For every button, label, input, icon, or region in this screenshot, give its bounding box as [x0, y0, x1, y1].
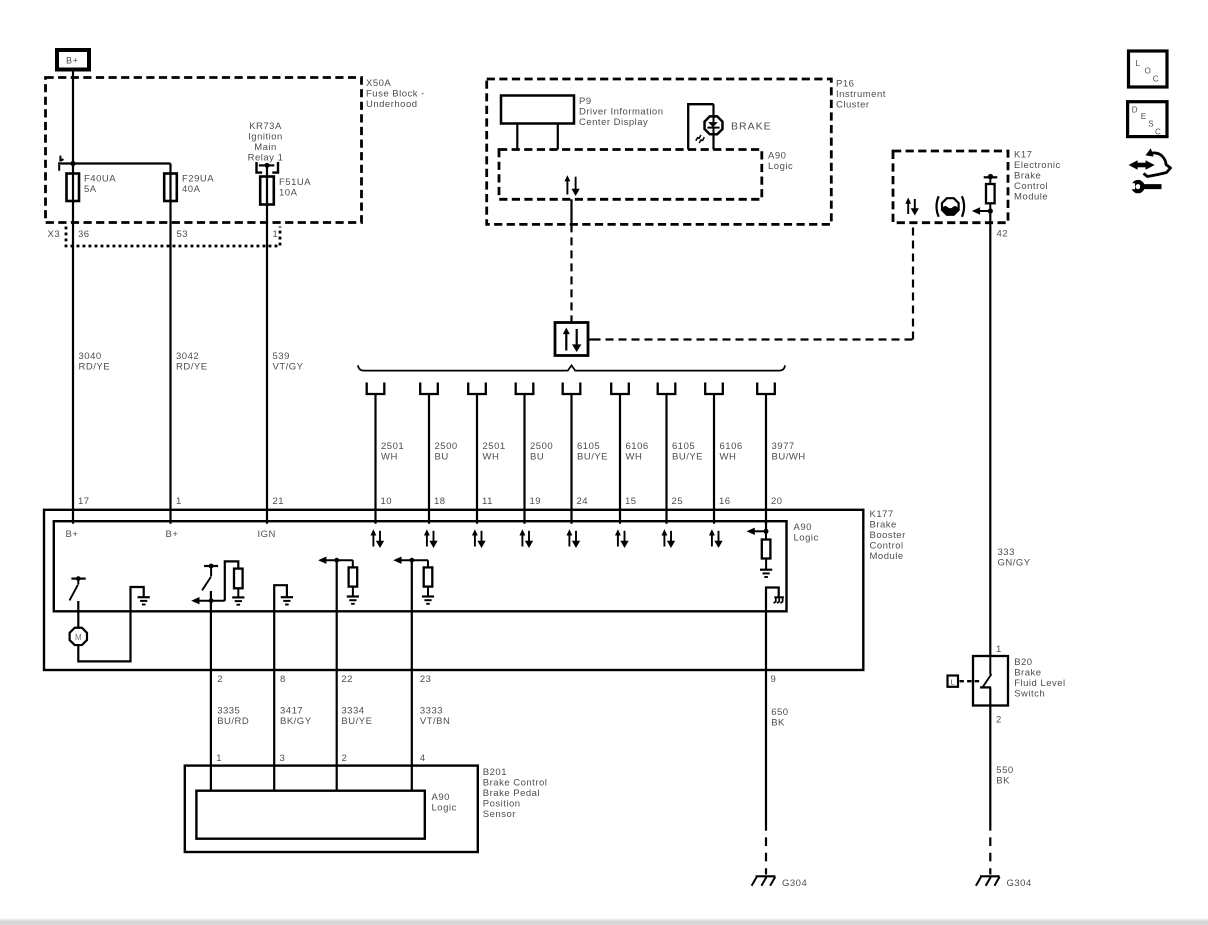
- pin 20 pull resistor: [765, 531, 767, 539]
- svg-text:B+: B+: [166, 529, 179, 540]
- svg-text:VT/BN: VT/BN: [420, 716, 450, 727]
- wire 3335 BU/RD: [210, 670, 212, 791]
- wire 550 BK dashed to ground: [989, 822, 991, 875]
- svg-text:15: 15: [625, 496, 637, 507]
- svg-text:S: S: [1148, 119, 1153, 128]
- svg-text:24: 24: [577, 496, 589, 507]
- svg-text:A90: A90: [768, 150, 786, 161]
- svg-text:2500: 2500: [435, 441, 458, 452]
- logic A90 box in B201: [196, 791, 424, 839]
- svg-text:18: 18: [434, 496, 446, 507]
- svg-text:D: D: [1132, 106, 1138, 115]
- svg-text:3: 3: [280, 753, 286, 764]
- svg-text:X50A: X50A: [366, 78, 391, 89]
- svg-text:Logic: Logic: [768, 161, 793, 172]
- ground elbow pin 8: [274, 585, 287, 670]
- brake warning indicator symbol: [942, 198, 959, 215]
- wire 650 BK dashed to ground: [765, 822, 767, 875]
- wiring diagram icon wrench: [1140, 184, 1162, 189]
- connector terminal for circuit 6105 BU/YE: [563, 383, 581, 395]
- svg-text:Relay 1: Relay 1: [248, 152, 284, 163]
- connector terminal for circuit 2500 BU: [516, 383, 534, 395]
- svg-text:25: 25: [672, 496, 684, 507]
- dashed serial data wire right to K17: [588, 338, 593, 340]
- svg-text:L: L: [1136, 59, 1141, 68]
- wire 6106 WH: [713, 394, 715, 524]
- window scrollbar: [0, 919, 1208, 921]
- serial data arrows pin 15: [617, 535, 619, 547]
- DESC hotspot box: [1128, 102, 1167, 137]
- svg-text:BRAKE: BRAKE: [731, 121, 772, 133]
- LED light rays: [696, 135, 705, 143]
- instrument cluster P16 dashed box: [487, 79, 832, 224]
- svg-text:333: 333: [998, 547, 1015, 558]
- dashed serial data wire up to K17: [912, 223, 914, 340]
- wire 3977 BU/WH: [765, 394, 767, 524]
- svg-text:F40UA: F40UA: [84, 174, 116, 185]
- wire 550 BK: [989, 687, 991, 822]
- svg-text:BK: BK: [996, 775, 1010, 786]
- connector terminal for circuit 2501 WH: [367, 383, 385, 395]
- sensor B201 Brake Control Brake Pedal Position Sensor box: [185, 766, 478, 852]
- serial data arrows in A90: [566, 180, 568, 194]
- wire 2500 BU: [523, 394, 525, 524]
- svg-text:BU: BU: [530, 452, 544, 463]
- brake apply switch: [204, 565, 218, 567]
- svg-text:B20: B20: [1014, 657, 1032, 668]
- pump motor M: [70, 628, 87, 645]
- svg-text:1: 1: [216, 753, 222, 764]
- svg-text:2: 2: [217, 674, 223, 685]
- internal voltage supply: [984, 176, 998, 178]
- switch B20 Brake Fluid Level Switch box: [973, 656, 1008, 706]
- node at pin 42: [988, 208, 993, 213]
- ground G304 left: [756, 875, 776, 877]
- svg-text:2501: 2501: [483, 441, 506, 452]
- wire 2501 WH: [476, 394, 478, 524]
- module K17 Electronic Brake Control Module dashed box: [893, 151, 1008, 223]
- svg-text:Fluid Level: Fluid Level: [1014, 678, 1065, 689]
- wire pin 22 inside module: [336, 560, 338, 670]
- level sensor L box: [948, 676, 959, 687]
- svg-text:Logic: Logic: [432, 802, 457, 813]
- svg-text:Brake Pedal: Brake Pedal: [483, 788, 540, 799]
- svg-text:6105: 6105: [577, 441, 600, 452]
- fuse F40UA 5A: [67, 174, 80, 202]
- svg-text:Logic: Logic: [794, 532, 819, 543]
- dashed serial data wire down: [570, 224, 572, 322]
- fuse block X50A dashed box: [46, 78, 362, 223]
- svg-text:Control: Control: [870, 541, 904, 552]
- serial data arrows pin 19: [521, 535, 523, 547]
- svg-text:B201: B201: [483, 767, 507, 778]
- wiring diagram icon arrows: [1137, 163, 1148, 168]
- arrow to brake symbol: [979, 210, 990, 212]
- ground in A90: [760, 569, 772, 571]
- svg-text:K17: K17: [1014, 150, 1032, 161]
- svg-text:Brake: Brake: [1014, 171, 1041, 182]
- svg-text:Driver Information: Driver Information: [579, 107, 664, 118]
- svg-text:B+: B+: [66, 529, 79, 540]
- svg-text:3042: 3042: [176, 351, 199, 362]
- connector X3 dotted box: [66, 227, 280, 247]
- svg-text:Brake: Brake: [870, 520, 897, 531]
- svg-text:Sensor: Sensor: [483, 809, 516, 820]
- svg-text:Electronic: Electronic: [1014, 160, 1061, 171]
- battery feed terminal B+: [57, 50, 89, 70]
- svg-text:BK/GY: BK/GY: [280, 716, 312, 727]
- svg-text:9: 9: [771, 674, 777, 685]
- svg-text:22: 22: [341, 674, 353, 685]
- dashed link L to switch: [960, 680, 981, 682]
- svg-text:23: 23: [420, 674, 432, 685]
- svg-text:3335: 3335: [217, 705, 240, 716]
- svg-text:4: 4: [420, 753, 426, 764]
- svg-text:53: 53: [177, 229, 189, 240]
- svg-text:6106: 6106: [626, 441, 649, 452]
- svg-text:6106: 6106: [720, 441, 743, 452]
- svg-text:Cluster: Cluster: [836, 100, 870, 111]
- connector terminal for circuit 6106 WH: [611, 383, 629, 395]
- wire horizontal to F29UA: [58, 162, 171, 164]
- svg-text:A90: A90: [432, 792, 450, 803]
- svg-text:Booster: Booster: [870, 530, 906, 541]
- svg-text:3333: 3333: [420, 705, 443, 716]
- wire pin 23 inside module: [411, 560, 413, 670]
- svg-text:M: M: [75, 633, 82, 642]
- svg-text:WH: WH: [626, 452, 643, 463]
- ground for switch resistor: [232, 596, 244, 598]
- LOC hotspot box: [1129, 51, 1168, 87]
- ground for pin 8: [281, 596, 293, 598]
- wire 6105 BU/YE: [665, 394, 667, 524]
- svg-text:A90: A90: [794, 522, 812, 533]
- connector terminal for circuit 2500 BU: [420, 383, 438, 395]
- svg-text:Control: Control: [1014, 181, 1048, 192]
- resistor in K17: [986, 184, 995, 203]
- fuse F51UA 10A: [266, 165, 268, 523]
- wire from A90 down: [570, 199, 572, 224]
- connector terminal for circuit 6106 WH: [705, 383, 723, 395]
- serial data arrows pin 10: [372, 535, 374, 547]
- serial data symbol box: [555, 323, 588, 356]
- svg-text:16: 16: [719, 496, 731, 507]
- pull resistor for switch: [225, 561, 239, 600]
- svg-text:P9: P9: [579, 96, 592, 107]
- chassis ground elbow for pin 9: [766, 588, 779, 671]
- svg-text:Center Display: Center Display: [579, 117, 648, 128]
- wire 3417 BK/GY: [273, 670, 275, 791]
- fluid level switch contacts: [989, 656, 991, 675]
- svg-text:42: 42: [997, 229, 1009, 240]
- svg-text:2: 2: [342, 753, 348, 764]
- svg-text:Brake: Brake: [1014, 668, 1041, 679]
- svg-text:BU/YE: BU/YE: [577, 452, 608, 463]
- ground for motor: [138, 596, 150, 598]
- connector terminal for circuit 3977 BU/WH: [757, 383, 775, 395]
- wire pin 2 inside module: [210, 591, 212, 670]
- BRAKE indicator frame: [688, 104, 713, 149]
- pull resistor pin 23: [427, 560, 429, 567]
- svg-text:550: 550: [996, 765, 1013, 776]
- svg-text:WH: WH: [381, 452, 398, 463]
- svg-text:BK: BK: [771, 718, 785, 729]
- pin 23 output arrow: [401, 559, 429, 561]
- svg-text:Position: Position: [483, 799, 521, 810]
- svg-text:KR73A: KR73A: [249, 121, 282, 132]
- svg-text:O: O: [1145, 67, 1151, 76]
- svg-text:BU/YE: BU/YE: [672, 452, 703, 463]
- svg-text:36: 36: [78, 229, 90, 240]
- fuse F29UA 40A: [169, 164, 171, 524]
- relay KR73A contact symbol: [257, 162, 279, 173]
- svg-text:K177: K177: [870, 509, 894, 520]
- wire 2501 WH: [374, 394, 376, 524]
- svg-text:17: 17: [78, 496, 90, 507]
- connector terminal for circuit 6105 BU/YE: [658, 383, 676, 395]
- wire 2500 BU: [428, 394, 430, 524]
- svg-text:5A: 5A: [84, 184, 97, 195]
- svg-text:G304: G304: [782, 878, 807, 889]
- svg-text:VT/GY: VT/GY: [273, 361, 304, 372]
- serial data arrows pin 16: [711, 535, 713, 547]
- svg-text:Module: Module: [870, 551, 904, 562]
- svg-text:2500: 2500: [530, 441, 553, 452]
- svg-text:Brake Control: Brake Control: [483, 778, 548, 789]
- svg-text:Main: Main: [254, 142, 277, 153]
- serial data arrows pin 24: [568, 535, 570, 547]
- svg-text:X3: X3: [48, 229, 61, 240]
- ground G304 right: [980, 875, 1000, 877]
- wire 3333 VT/BN: [411, 670, 413, 791]
- svg-text:Ignition: Ignition: [248, 131, 283, 142]
- wire 6106 WH: [619, 394, 621, 524]
- svg-text:11: 11: [482, 496, 493, 507]
- svg-text:19: 19: [530, 496, 542, 507]
- bus brace: [358, 365, 785, 370]
- svg-text:B+: B+: [66, 56, 78, 66]
- svg-text:Underhood: Underhood: [366, 99, 418, 110]
- display P9 Driver Information Center Display: [501, 96, 574, 124]
- svg-text:Instrument: Instrument: [836, 89, 886, 100]
- svg-text:Fuse Block -: Fuse Block -: [366, 88, 425, 99]
- svg-text:RD/YE: RD/YE: [79, 361, 111, 372]
- motor ground wire: [78, 587, 143, 661]
- pin 20 input arrow and node: [754, 530, 766, 532]
- svg-text:BU: BU: [435, 452, 449, 463]
- svg-text:GN/GY: GN/GY: [998, 558, 1031, 569]
- svg-text:G304: G304: [1007, 878, 1032, 889]
- wire 3334 BU/YE: [336, 670, 338, 791]
- BRAKE indicator LED: [705, 116, 723, 134]
- pin 2 output arrow: [199, 600, 225, 602]
- connector terminal for circuit 2501 WH: [468, 383, 486, 395]
- motor switch: [71, 577, 85, 579]
- svg-text:Module: Module: [1014, 192, 1048, 203]
- svg-text:Switch: Switch: [1014, 689, 1045, 700]
- svg-text:C: C: [1155, 128, 1161, 137]
- pin 22 output arrow: [325, 559, 352, 561]
- pull resistor pin 22: [352, 560, 354, 567]
- svg-text:3417: 3417: [280, 705, 303, 716]
- serial data arrows in K17: [907, 203, 909, 214]
- module K177 Brake Booster Control Module box: [44, 510, 863, 670]
- svg-text:2: 2: [996, 715, 1002, 726]
- svg-text:8: 8: [280, 674, 286, 685]
- svg-text:BU/YE: BU/YE: [341, 716, 372, 727]
- svg-text:650: 650: [771, 707, 788, 718]
- svg-text:1: 1: [273, 229, 279, 240]
- svg-text:P16: P16: [836, 79, 854, 90]
- svg-text:F51UA: F51UA: [279, 177, 311, 188]
- serial data arrows pin 11: [474, 535, 476, 547]
- svg-text:BU/RD: BU/RD: [217, 716, 249, 727]
- wire 6105 BU/YE: [570, 394, 572, 524]
- serial data arrows pin 25: [663, 535, 665, 547]
- svg-text:1: 1: [176, 496, 182, 507]
- svg-text:E: E: [1141, 112, 1146, 121]
- svg-text:3040: 3040: [79, 351, 102, 362]
- logic A90 dashed box in P16: [499, 150, 762, 200]
- svg-text:C: C: [1153, 75, 1159, 84]
- svg-text:2501: 2501: [381, 441, 404, 452]
- svg-text:10: 10: [381, 496, 393, 507]
- svg-text:BU/WH: BU/WH: [772, 452, 806, 463]
- wire junction node: [70, 161, 75, 166]
- serial data arrows pin 18: [426, 535, 428, 547]
- svg-text:10A: 10A: [279, 187, 298, 198]
- chassis ground symbol: [774, 596, 784, 598]
- svg-text:WH: WH: [483, 452, 500, 463]
- wire B+ down through fuse F40UA to K177: [72, 72, 74, 524]
- svg-text:RD/YE: RD/YE: [176, 361, 208, 372]
- svg-text:40A: 40A: [182, 184, 201, 195]
- svg-text:WH: WH: [720, 452, 737, 463]
- svg-text:1: 1: [996, 644, 1002, 655]
- wire pin 42 down to B20: [989, 211, 991, 656]
- svg-text:3977: 3977: [772, 441, 795, 452]
- svg-text:3334: 3334: [341, 705, 364, 716]
- wire pin 20 into A90: [765, 521, 767, 531]
- splice hook marker: [59, 156, 63, 171]
- wire 650 BK: [765, 670, 767, 822]
- svg-text:F29UA: F29UA: [182, 174, 214, 185]
- svg-text:IGN: IGN: [258, 529, 276, 540]
- svg-text:21: 21: [273, 496, 285, 507]
- svg-text:L: L: [951, 678, 955, 687]
- svg-text:20: 20: [771, 496, 783, 507]
- logic A90 box in K177: [54, 521, 787, 611]
- svg-text:539: 539: [273, 351, 290, 362]
- svg-text:6105: 6105: [672, 441, 695, 452]
